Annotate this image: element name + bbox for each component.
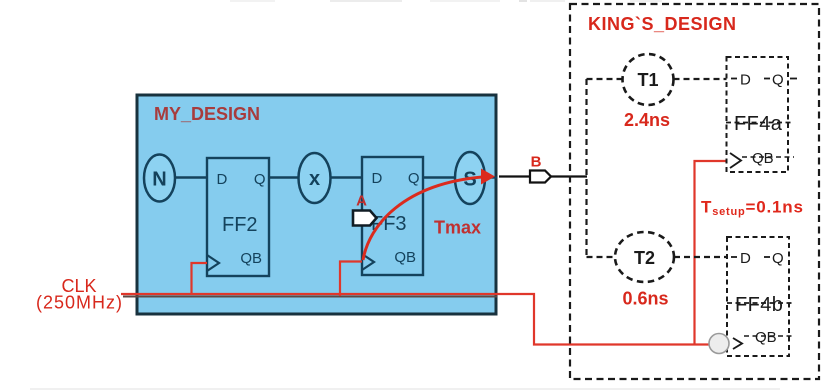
wire S out to buffer B bbox=[499, 175, 530, 177]
svg-text:Q: Q bbox=[408, 170, 420, 187]
svg-text:MY_DESIGN: MY_DESIGN bbox=[154, 104, 260, 124]
svg-text:FF4b: FF4b bbox=[735, 294, 783, 316]
wire x to FF3 D bbox=[330, 176, 362, 178]
svg-text:D: D bbox=[740, 250, 751, 267]
CLK branch to FF4a clock bbox=[695, 161, 729, 345]
svg-text:QB: QB bbox=[752, 150, 774, 167]
svg-text:2.4ns: 2.4ns bbox=[624, 110, 670, 130]
wire branch to T1 (dashed) bbox=[587, 78, 624, 80]
CLK wire main run bbox=[121, 294, 710, 345]
wire S to block edge bbox=[485, 176, 497, 178]
svg-text:FF2: FF2 bbox=[222, 214, 258, 236]
wire T2 to FF4b (dashed) bbox=[674, 256, 728, 258]
svg-text:A: A bbox=[356, 193, 367, 210]
junction node at FF4b clock bbox=[709, 334, 729, 354]
svg-text:x: x bbox=[309, 168, 320, 190]
node N bbox=[144, 155, 175, 202]
svg-text:FF4a: FF4a bbox=[734, 113, 783, 135]
svg-text:B: B bbox=[531, 154, 542, 171]
svg-text:D: D bbox=[740, 72, 751, 89]
wire branch vertical (dashed) bbox=[585, 79, 587, 257]
svg-text:QB: QB bbox=[240, 250, 262, 267]
svg-text:T1: T1 bbox=[637, 70, 658, 90]
buffer tag B bbox=[530, 171, 551, 183]
port tag A bbox=[353, 211, 377, 226]
Tmax arrow (red arc from FF3 clock to S) bbox=[363, 169, 495, 261]
flip-flop FF3 bbox=[362, 157, 423, 275]
block KING`S_DESIGN (dashed) bbox=[570, 4, 819, 379]
block MY_DESIGN bbox=[137, 95, 496, 314]
svg-text:QB: QB bbox=[755, 329, 777, 346]
CLK branch to FF3 clock bbox=[340, 262, 362, 297]
delay element T2 bbox=[615, 232, 674, 282]
svg-text:T2: T2 bbox=[634, 248, 655, 268]
svg-text:D: D bbox=[372, 170, 383, 187]
wire branch to T2 (dashed) bbox=[587, 256, 616, 258]
node x bbox=[299, 153, 331, 203]
svg-text:(250MHz): (250MHz) bbox=[36, 293, 123, 313]
svg-text:D: D bbox=[217, 171, 228, 188]
wire buffer B to branch bbox=[551, 175, 587, 177]
node S bbox=[455, 152, 485, 204]
CLK branch to FF2 clock bbox=[192, 263, 208, 295]
wire N to FF2 D bbox=[175, 176, 207, 178]
svg-text:KING`S_DESIGN: KING`S_DESIGN bbox=[588, 14, 737, 34]
svg-text:N: N bbox=[152, 169, 166, 191]
svg-text:QB: QB bbox=[394, 249, 416, 266]
wire FF2 Q to x bbox=[269, 176, 299, 178]
svg-text:Q: Q bbox=[772, 72, 784, 89]
clock tree underlay wire (gray) bbox=[123, 296, 497, 298]
wire T1 to FF4a (dashed) bbox=[674, 78, 728, 80]
svg-text:Tmax: Tmax bbox=[434, 218, 481, 238]
flip-flop FF2 bbox=[207, 158, 269, 276]
flip-flop FF4b (dashed) bbox=[727, 237, 794, 356]
wire FF3 Q to S bbox=[423, 176, 456, 178]
flip-flop FF4a (dashed) bbox=[726, 57, 797, 172]
svg-text:Q: Q bbox=[772, 250, 784, 267]
svg-text:0.6ns: 0.6ns bbox=[622, 289, 668, 309]
delay element T1 bbox=[623, 54, 674, 105]
svg-text:Q: Q bbox=[254, 171, 266, 188]
